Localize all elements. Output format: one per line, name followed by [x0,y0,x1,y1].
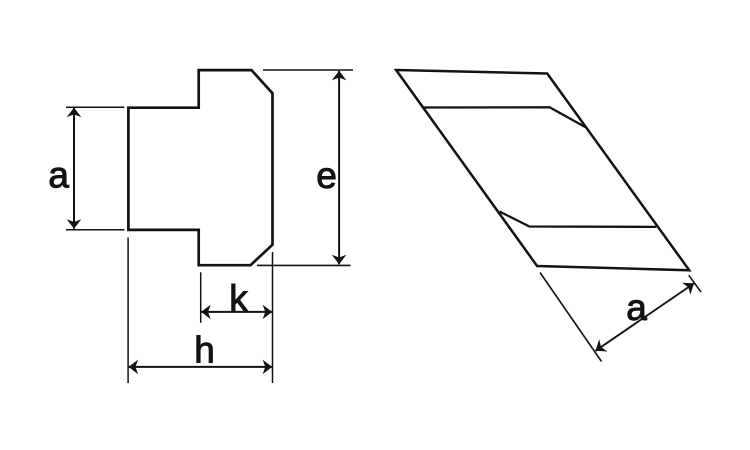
svg-text:h: h [194,330,215,371]
svg-text:a: a [626,287,647,328]
svg-text:e: e [316,155,337,196]
svg-text:a: a [48,155,69,196]
svg-text:k: k [229,278,248,319]
